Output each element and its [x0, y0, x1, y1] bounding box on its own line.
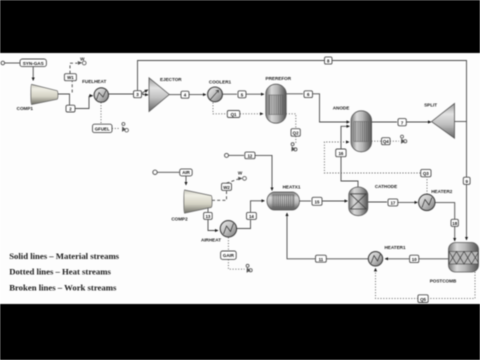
- svg-text:Q1: Q1: [231, 112, 237, 117]
- svg-text:W: W: [80, 57, 85, 62]
- svg-text:HEATER1: HEATER1: [384, 245, 406, 250]
- svg-text:FUELHEAT: FUELHEAT: [82, 79, 106, 84]
- svg-text:COMP1: COMP1: [17, 106, 34, 111]
- svg-text:Q4: Q4: [383, 139, 389, 144]
- svg-text:W2: W2: [223, 185, 230, 190]
- svg-text:ANODE: ANODE: [333, 105, 350, 110]
- svg-text:W: W: [238, 171, 243, 176]
- svg-text:Q3: Q3: [423, 171, 429, 176]
- svg-text:Broken lines – Work streams: Broken lines – Work streams: [9, 283, 117, 293]
- svg-text:HEATX1: HEATX1: [283, 184, 301, 189]
- svg-text:17: 17: [390, 201, 395, 206]
- svg-text:POSTCOMB: POSTCOMB: [430, 279, 457, 284]
- svg-text:W1: W1: [67, 75, 74, 80]
- svg-text:14: 14: [249, 214, 254, 219]
- svg-text:12: 12: [247, 153, 252, 158]
- svg-text:10: 10: [412, 257, 417, 262]
- svg-text:Q2: Q2: [293, 131, 299, 136]
- svg-text:SPLIT: SPLIT: [424, 103, 437, 108]
- svg-text:13: 13: [205, 214, 210, 219]
- svg-text:18: 18: [452, 221, 457, 226]
- svg-text:16: 16: [338, 151, 343, 156]
- svg-text:PREREFOR: PREREFOR: [266, 76, 292, 81]
- svg-text:Solid lines – Material streams: Solid lines – Material streams: [9, 251, 119, 261]
- svg-text:GFUEL: GFUEL: [95, 126, 110, 131]
- svg-text:COMP2: COMP2: [171, 217, 188, 222]
- svg-text:GAIR: GAIR: [223, 253, 235, 258]
- svg-text:SYN-GAS: SYN-GAS: [23, 61, 44, 66]
- svg-text:HEATER2: HEATER2: [431, 189, 453, 194]
- svg-text:CATHODE: CATHODE: [375, 184, 397, 189]
- svg-text:COOLER1: COOLER1: [209, 80, 232, 85]
- svg-text:EJECTOR: EJECTOR: [160, 77, 182, 82]
- svg-text:Dotted lines – Heat streams: Dotted lines – Heat streams: [9, 267, 111, 277]
- svg-text:AIRHEAT: AIRHEAT: [201, 238, 221, 243]
- svg-text:AIR: AIR: [182, 170, 190, 175]
- svg-text:11: 11: [319, 257, 324, 262]
- svg-text:Q5: Q5: [420, 297, 426, 302]
- svg-text:15: 15: [315, 199, 320, 204]
